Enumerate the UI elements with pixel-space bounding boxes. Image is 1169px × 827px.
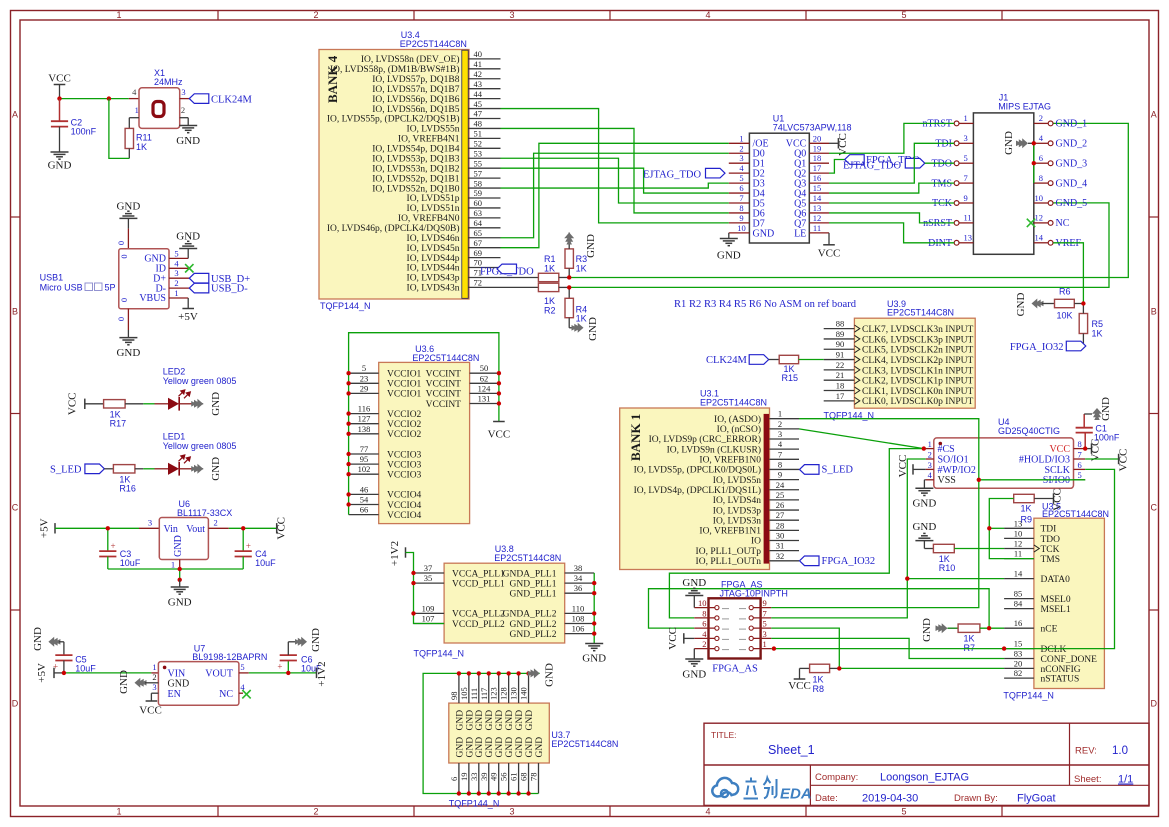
svg-text:25: 25 — [776, 490, 785, 500]
svg-text:VCCIO1: VCCIO1 — [387, 390, 422, 400]
svg-text:Yellow green 0805: Yellow green 0805 — [163, 376, 237, 386]
svg-text:GND: GND — [582, 653, 606, 665]
resistor R9 — [1014, 494, 1054, 524]
svg-text:CLK6, LVDSCLK3p INPUT: CLK6, LVDSCLK3p INPUT — [862, 335, 973, 345]
svg-text:10uF: 10uF — [255, 558, 276, 568]
flash U4 GD25Q40CTIG — [934, 417, 1074, 488]
net flag EJTAG_TDO (U1 D2) — [643, 168, 725, 180]
svg-text:IO, LVDS44p: IO, LVDS44p — [407, 254, 460, 264]
svg-text:VCC: VCC — [1049, 444, 1070, 455]
svg-text:VCCA_PLL1: VCCA_PLL1 — [452, 569, 505, 579]
svg-text:2: 2 — [181, 105, 185, 115]
FPGA U3.6 EP2C5T144C8N power — [379, 344, 480, 524]
FPGA U3.7 EP2C5T144C8N GND — [449, 703, 619, 808]
svg-text:1K: 1K — [1092, 328, 1103, 338]
svg-text:GND: GND — [515, 737, 525, 758]
svg-text:GND: GND — [1003, 131, 1015, 155]
svg-text:62: 62 — [480, 373, 489, 383]
svg-text:EP2C5T144C8N: EP2C5T144C8N — [400, 39, 467, 49]
svg-text:2: 2 — [313, 10, 318, 20]
svg-text:VCC: VCC — [837, 133, 849, 156]
svg-text:CONF_DONE: CONF_DONE — [1041, 655, 1098, 665]
junction dots U3.8 right — [592, 581, 596, 636]
svg-text:IO, LVDS44n: IO, LVDS44n — [407, 264, 460, 274]
svg-text:IO, LVDS43p: IO, LVDS43p — [407, 274, 460, 284]
wire R8 to nCONFIG and FPGA_AS pin5 — [771, 628, 1004, 668]
wire Q0-nTRST — [829, 123, 954, 153]
svg-text:6: 6 — [739, 183, 743, 193]
svg-text:111: 111 — [469, 688, 479, 700]
ground GND (J1 internal) — [1003, 131, 1036, 183]
svg-text:VOUT: VOUT — [205, 669, 233, 680]
U3.8 pins — [414, 563, 595, 640]
svg-text:GND: GND — [475, 737, 485, 758]
FPGA U3.1 EP2C5T144C8N BANK1 — [620, 389, 770, 570]
svg-text:49: 49 — [489, 773, 499, 782]
svg-text:R6: R6 — [1059, 286, 1071, 296]
svg-text:7: 7 — [763, 608, 767, 618]
wire #CS to FPGA_AS pin8 — [669, 449, 923, 618]
svg-text:3: 3 — [174, 268, 178, 278]
svg-text:TCK: TCK — [1041, 545, 1060, 555]
ground GND (USB1 top) — [116, 201, 140, 249]
svg-text:84: 84 — [1014, 599, 1023, 609]
svg-text:R17: R17 — [110, 419, 127, 429]
resistor R10 — [933, 544, 955, 573]
svg-text:nCONFIG: nCONFIG — [1041, 665, 1081, 675]
svg-text:IO, LVDS54p, DQ1B4: IO, LVDS54p, DQ1B4 — [372, 145, 460, 155]
svg-text:TQFP144_N: TQFP144_N — [414, 649, 465, 659]
svg-text:GND: GND — [912, 521, 936, 533]
net flag EJTAG_TDO (J1 TDO) — [843, 158, 954, 171]
capacitor C2 — [51, 99, 97, 152]
svg-text:IO, PLL1_OUTp: IO, PLL1_OUTp — [696, 547, 762, 557]
ground GND (U6) — [168, 580, 192, 609]
svg-text:5: 5 — [901, 807, 906, 817]
ground GND (R6) — [1015, 293, 1055, 317]
wire Q5-TCK — [829, 202, 954, 204]
svg-text:IO, LVDS56p, DQ1B6: IO, LVDS56p, DQ1B6 — [372, 95, 460, 105]
svg-text:GND: GND — [1100, 397, 1112, 421]
svg-text:8: 8 — [1078, 439, 1082, 449]
svg-text:IO, LVDS52n, DQ1B0: IO, LVDS52n, DQ1B0 — [372, 184, 460, 194]
svg-text:38: 38 — [574, 563, 583, 573]
resistor R1 — [501, 254, 570, 282]
junction dots U3.7 — [457, 671, 531, 796]
wire SO/IO1 - DATA0 - FPGA_AS pin7 — [771, 459, 926, 618]
svg-text:66: 66 — [360, 505, 369, 515]
ground rail wire (U6) — [108, 560, 243, 580]
svg-text:127: 127 — [358, 414, 371, 424]
svg-text:123: 123 — [489, 687, 499, 700]
svg-text:CLK4, LVDSCLK2p INPUT: CLK4, LVDSCLK2p INPUT — [862, 356, 973, 366]
svg-text:GNDA_PLL2: GNDA_PLL2 — [503, 610, 557, 620]
svg-text:GND: GND — [505, 710, 515, 731]
svg-text:VCCIO4: VCCIO4 — [387, 511, 422, 521]
svg-text:10: 10 — [698, 598, 707, 608]
ground GND (X1 pin2) — [176, 118, 200, 147]
wire U3.1 pin2 to U4 #CS (diagonal) — [799, 429, 926, 449]
svg-text:EN: EN — [168, 689, 181, 700]
svg-text:15: 15 — [813, 183, 822, 193]
svg-text:GND: GND — [544, 663, 556, 687]
note text R1-R6 no ASM — [674, 299, 856, 310]
svg-text:1: 1 — [763, 639, 767, 649]
svg-text:IO, LVDS4p, (DPCLK1/DQS1L): IO, LVDS4p, (DPCLK1/DQS1L) — [634, 485, 761, 496]
svg-text:130: 130 — [509, 687, 519, 700]
wire +5V to U6 Vin — [55, 527, 159, 529]
svg-text:3: 3 — [763, 629, 767, 639]
svg-text:GND_PLL2: GND_PLL2 — [510, 630, 557, 640]
svg-text:S_LED: S_LED — [822, 464, 854, 475]
svg-text:+1V2: +1V2 — [389, 541, 401, 566]
svg-text:5: 5 — [901, 10, 906, 20]
svg-text:CLK0, LVDSCLK0p INPUT: CLK0, LVDSCLK0p INPUT — [862, 397, 973, 407]
net flag CLK24M (to R15) — [706, 355, 779, 366]
wire Q6-nSRST — [829, 213, 954, 223]
svg-text:35: 35 — [424, 573, 433, 583]
svg-text:GND_PLL2: GND_PLL2 — [510, 620, 557, 630]
svg-text:GND_3: GND_3 — [1056, 158, 1088, 169]
svg-text:54: 54 — [360, 495, 369, 505]
svg-text:VCCIO2: VCCIO2 — [387, 420, 422, 430]
svg-text:GND: GND — [116, 347, 140, 359]
net flag USB_D- — [189, 283, 248, 294]
svg-text:Loongson_EJTAG: Loongson_EJTAG — [880, 772, 969, 784]
junction dot nCE — [987, 626, 991, 630]
svg-text:CLK24M: CLK24M — [706, 355, 748, 366]
svg-text:18: 18 — [836, 381, 845, 391]
svg-text:24: 24 — [776, 480, 785, 490]
wire R9-TDI-TMS — [989, 499, 1034, 559]
junction dots R1 R2 — [567, 275, 571, 289]
svg-text:GND: GND — [921, 618, 933, 642]
svg-text:GND: GND — [585, 234, 597, 258]
svg-text:17: 17 — [836, 391, 845, 401]
ground GND (LED2) — [191, 392, 222, 416]
svg-text:83: 83 — [1014, 649, 1023, 659]
FPGA_AS pins — [694, 598, 771, 651]
svg-text:GND: GND — [485, 737, 495, 758]
svg-text:IO, LVDS46n: IO, LVDS46n — [407, 234, 460, 244]
wire R11 to X1 net — [109, 99, 129, 159]
svg-text:15: 15 — [1014, 639, 1023, 649]
svg-text:91: 91 — [836, 350, 845, 360]
resistor R17 — [104, 400, 144, 429]
svg-text:GND: GND — [1015, 293, 1027, 317]
power flag VCC (U4 pin8) — [1083, 439, 1102, 462]
svg-text:1: 1 — [135, 105, 139, 115]
svg-text:1: 1 — [116, 807, 121, 817]
svg-text:GND: GND — [310, 628, 322, 652]
wire DATA0 branch — [907, 578, 1004, 580]
svg-text:+5V: +5V — [39, 518, 51, 538]
svg-text:GND: GND — [682, 669, 706, 681]
svg-text:8: 8 — [702, 608, 706, 618]
svg-text:VCC: VCC — [139, 705, 162, 717]
power flag VCC (R9) — [1052, 488, 1064, 511]
resistor R7 — [958, 624, 980, 653]
svg-text:FPGA_IO32: FPGA_IO32 — [822, 556, 876, 567]
U3.5 pins — [1004, 518, 1097, 684]
svg-text:C: C — [12, 503, 19, 513]
ground GND (C2) — [48, 152, 72, 172]
svg-text:1: 1 — [171, 560, 175, 570]
svg-text:3: 3 — [778, 429, 782, 439]
svg-text:20: 20 — [813, 133, 822, 143]
title block — [704, 723, 1149, 805]
svg-text:8: 8 — [778, 459, 782, 469]
svg-text:74LVC573APW,118: 74LVC573APW,118 — [773, 122, 852, 132]
ground GND (U3.8) — [582, 644, 606, 665]
resistor R16 — [113, 465, 143, 494]
svg-text:USB1: USB1 — [40, 272, 64, 282]
U3.4 pins — [327, 49, 501, 294]
svg-text:GND: GND — [168, 597, 192, 609]
U1 pins — [729, 133, 829, 239]
svg-text:NC: NC — [1056, 218, 1070, 229]
svg-text:34: 34 — [574, 573, 583, 583]
svg-text:VCCINT: VCCINT — [426, 370, 462, 380]
svg-text:GND_1: GND_1 — [1056, 119, 1088, 130]
svg-text:LED1: LED1 — [163, 431, 186, 441]
no-connect X (USB1 ID) — [185, 264, 193, 272]
svg-text:VCC: VCC — [48, 73, 71, 85]
svg-text:JTAG-10PINPTH: JTAG-10PINPTH — [720, 588, 788, 598]
svg-text:EJTAG_TDO: EJTAG_TDO — [643, 169, 701, 180]
svg-text:#CS: #CS — [938, 444, 955, 455]
capacitor C4 — [235, 528, 277, 569]
svg-text:4: 4 — [705, 10, 710, 20]
wire DCLK to FPGA_AS pin1 — [771, 648, 1004, 650]
svg-text:IO, LVDS52p, DQ1B1: IO, LVDS52p, DQ1B1 — [372, 174, 460, 184]
net flag FPGA_TDO (U1 Q2) — [829, 155, 920, 173]
resistor R11 — [125, 118, 152, 159]
svg-text:TDO: TDO — [1041, 535, 1061, 545]
svg-text:EJTAG_TDO: EJTAG_TDO — [843, 160, 901, 171]
svg-text:IO, LVDS55p, (DPCLK2/DQS1B): IO, LVDS55p, (DPCLK2/DQS1B) — [327, 114, 460, 125]
capacitor C1 — [1076, 414, 1120, 449]
svg-text:GND: GND — [515, 710, 525, 731]
svg-text:TQFP144_N: TQFP144_N — [1003, 691, 1054, 701]
svg-text:TDI: TDI — [935, 139, 952, 150]
wire Q7-DINT — [829, 223, 954, 243]
net flag S_LED (U3.1 pin8) — [800, 464, 854, 475]
svg-text:Sheet_1: Sheet_1 — [768, 743, 815, 757]
U3.1 pins — [634, 409, 799, 567]
connector USB1 Micro USB — [40, 249, 169, 309]
svg-text:106: 106 — [572, 624, 585, 634]
svg-text:1: 1 — [739, 133, 743, 143]
net flag S_LED (LED1) — [50, 464, 113, 475]
svg-text:TDO: TDO — [931, 158, 952, 169]
junction dot VREF/R5/R6 — [1081, 301, 1085, 305]
svg-text:VCCIO4: VCCIO4 — [387, 501, 422, 511]
wire SCLK to DCLK — [1004, 469, 1114, 648]
svg-text:BL1117-33CX: BL1117-33CX — [177, 508, 232, 518]
svg-text:59: 59 — [474, 188, 483, 198]
svg-text:36: 36 — [574, 583, 583, 593]
svg-text:31: 31 — [776, 541, 785, 551]
svg-text:6: 6 — [449, 777, 459, 781]
svg-text:1K: 1K — [136, 142, 147, 152]
power flag VCC (U4 #HOLD) — [1085, 449, 1129, 472]
ground GND (U3.7) — [528, 663, 556, 687]
svg-text:EP2C5T144C8N: EP2C5T144C8N — [494, 553, 561, 563]
svg-text:8: 8 — [739, 203, 743, 213]
svg-text:IO, LVDS57p, DQ1B8: IO, LVDS57p, DQ1B8 — [372, 75, 460, 85]
svg-text:IO, (nCSO): IO, (nCSO) — [717, 424, 761, 435]
power flag VCC (U1 pin20) — [829, 133, 849, 156]
svg-text:Vout: Vout — [186, 524, 205, 535]
svg-text:67: 67 — [474, 238, 483, 248]
svg-text:R15: R15 — [782, 373, 799, 383]
svg-text:IO, LVDS53n, DQ1B2: IO, LVDS53n, DQ1B2 — [372, 164, 460, 174]
regulator U6 BL1117-33CX — [148, 499, 232, 570]
svg-text:GND_PLL1: GND_PLL1 — [510, 579, 557, 589]
wire R10 to TCK — [954, 548, 1004, 550]
svg-text:2: 2 — [739, 143, 743, 153]
ground GND (C1) — [1092, 397, 1112, 421]
svg-text:3: 3 — [964, 133, 968, 143]
svg-text:GND: GND — [753, 228, 775, 239]
svg-text:GND: GND — [455, 710, 465, 731]
FPGA U3.5 EP2C5T144C8N config — [1003, 502, 1109, 701]
svg-text:R2: R2 — [544, 305, 556, 315]
svg-text:GND: GND — [535, 737, 545, 758]
svg-text:IO, LVDS58p, (DM1B/BWS#1B): IO, LVDS58p, (DM1B/BWS#1B) — [330, 64, 460, 75]
wire net p55-D4 — [501, 168, 729, 193]
power flag VCC (U4 #WP) — [897, 455, 926, 478]
svg-text:3: 3 — [181, 87, 185, 97]
svg-text:52: 52 — [474, 139, 483, 149]
resistor R8 — [810, 664, 840, 694]
svg-text:9: 9 — [778, 470, 782, 480]
power flag VCC (U1 LE) — [818, 233, 841, 260]
svg-text:65: 65 — [474, 228, 483, 238]
wire to LED1 — [143, 468, 168, 470]
svg-text:EDA: EDA — [780, 786, 812, 803]
svg-text:GND: GND — [465, 737, 475, 758]
svg-text:110: 110 — [572, 603, 584, 613]
svg-text:11: 11 — [813, 223, 821, 233]
ground GND (U7 pin2) — [118, 670, 158, 694]
svg-text:7: 7 — [739, 193, 743, 203]
U3.7 pins bottom — [449, 737, 545, 794]
svg-text:VCC: VCC — [897, 455, 909, 478]
power flag VCC (FPGA_AS pin4) — [667, 627, 694, 650]
svg-text:128: 128 — [499, 687, 509, 700]
junction dot #CS — [922, 446, 926, 450]
svg-text:9: 9 — [964, 193, 968, 203]
svg-text:IO, LVDS46p, (DPCLK4/DQS0B): IO, LVDS46p, (DPCLK4/DQS0B) — [327, 223, 460, 234]
svg-text:78: 78 — [529, 773, 539, 782]
ground GND (U1 pin10) — [717, 233, 741, 262]
svg-text:GND: GND — [465, 710, 475, 731]
svg-text:2: 2 — [152, 672, 156, 682]
power flag +5V (USB1 VBUS) — [178, 298, 198, 323]
svg-text:TITLE:: TITLE: — [711, 730, 737, 740]
wire X1-VCC — [60, 98, 140, 100]
svg-text:DINT: DINT — [928, 238, 952, 249]
svg-text:4: 4 — [705, 807, 710, 817]
svg-text:GND: GND — [525, 737, 535, 758]
svg-text:14: 14 — [1035, 233, 1044, 243]
svg-text:EP2C5T144C8N: EP2C5T144C8N — [887, 308, 954, 318]
svg-text:11: 11 — [1014, 549, 1022, 559]
svg-text:69: 69 — [474, 248, 483, 258]
svg-text:48: 48 — [474, 119, 483, 129]
svg-text:57: 57 — [474, 168, 483, 178]
power flag VCC (U3.6) — [488, 422, 511, 441]
svg-text:#WP/IO2: #WP/IO2 — [938, 465, 976, 476]
svg-text:R8: R8 — [813, 684, 825, 694]
svg-text:46: 46 — [360, 484, 369, 494]
svg-text:IO, LVDS5n: IO, LVDS5n — [713, 476, 761, 486]
svg-text:VCC: VCC — [488, 429, 511, 441]
svg-text:CLK1, LVDSCLK0n INPUT: CLK1, LVDSCLK0n INPUT — [862, 387, 973, 397]
USB1 pins — [139, 248, 189, 304]
svg-text:TMS: TMS — [931, 178, 952, 189]
svg-text:9: 9 — [739, 213, 743, 223]
svg-text:77: 77 — [360, 444, 369, 454]
svg-text:IO, LVDS53p, DQ1B3: IO, LVDS53p, DQ1B3 — [372, 154, 460, 164]
svg-text:89: 89 — [836, 329, 845, 339]
svg-text:EP2C5T144C8N: EP2C5T144C8N — [700, 397, 767, 407]
wire +5V to U7 VIN — [64, 672, 158, 674]
ground GND (R10) — [912, 521, 936, 549]
FPGA U3.4 EP2C5T144C8N BANK4 — [319, 30, 469, 311]
svg-text:VCC: VCC — [788, 680, 811, 692]
svg-text:GND: GND — [173, 535, 184, 557]
regulator U7 BL9198-12BAPRN — [152, 644, 267, 706]
svg-text:DATA0: DATA0 — [1041, 575, 1071, 585]
U3.9 pins — [824, 319, 974, 408]
wire U3.6 VCC rails — [349, 333, 499, 515]
svg-text:VCC: VCC — [1052, 488, 1064, 511]
svg-text:105: 105 — [459, 687, 469, 700]
svg-text:BL9198-12BAPRN: BL9198-12BAPRN — [192, 652, 267, 662]
svg-text:BANK 4: BANK 4 — [325, 55, 340, 103]
svg-text:14: 14 — [813, 193, 822, 203]
junction dots U3.6 — [346, 371, 501, 507]
svg-text:16: 16 — [813, 173, 822, 183]
svg-text:EP2C5T144C8N: EP2C5T144C8N — [412, 353, 479, 363]
resistor R6 — [1055, 286, 1084, 320]
svg-text:IO, LVDS43n: IO, LVDS43n — [407, 284, 460, 294]
svg-text:2: 2 — [174, 278, 178, 288]
svg-text:3: 3 — [928, 460, 932, 470]
svg-text:VCCIO1: VCCIO1 — [387, 370, 422, 380]
svg-text:VCCIO4: VCCIO4 — [387, 491, 422, 501]
junction dots DCLK — [772, 646, 1007, 650]
wire U3.8 right rail — [593, 573, 595, 644]
net flag FPGA_IO32 (U3.1 pin32) — [800, 556, 876, 567]
svg-text:33: 33 — [469, 773, 479, 782]
svg-text:85: 85 — [1014, 589, 1023, 599]
svg-text:GND: GND — [505, 737, 515, 758]
svg-text:1: 1 — [964, 113, 968, 123]
junction dots U7 — [62, 671, 291, 675]
svg-text:REV:: REV: — [1075, 746, 1097, 757]
svg-text:GND: GND — [495, 710, 505, 731]
junction dot DATA0 — [905, 576, 909, 580]
wire SI/IO0 to U3.1 pin1 and FPGA_AS pin9 — [771, 419, 979, 608]
svg-text:3: 3 — [152, 682, 156, 692]
svg-text:16: 16 — [1014, 618, 1023, 628]
svg-text:MSEL0: MSEL0 — [1041, 595, 1071, 605]
wire net p65-D0 — [501, 153, 729, 237]
